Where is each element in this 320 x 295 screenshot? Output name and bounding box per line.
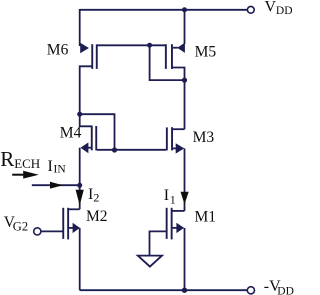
svg-text:2: 2 bbox=[93, 191, 99, 205]
svg-text:DD: DD bbox=[277, 285, 294, 295]
arrow I1 head bbox=[181, 192, 189, 205]
transistor M6 gate bar bbox=[96, 44, 98, 69]
wire top rail VDD bbox=[80, 9, 248, 11]
transistor M4 channel bar bbox=[91, 126, 93, 151]
svg-text:I: I bbox=[164, 187, 169, 204]
svg-text:M2: M2 bbox=[86, 208, 108, 225]
svg-text:1: 1 bbox=[170, 193, 176, 207]
transistor M2 channel bar bbox=[67, 208, 69, 240]
transistor M6 source arrow bbox=[80, 43, 89, 53]
wire gate line M6-M5 bbox=[97, 44, 166, 46]
wire IIN input line bbox=[32, 184, 80, 186]
svg-text:DD: DD bbox=[276, 5, 293, 17]
transistor M5 gate bar bbox=[165, 44, 167, 69]
wire M3 drain lead bbox=[172, 128, 185, 130]
transistor M3 gate bar bbox=[166, 127, 168, 150]
wire M2 gate lead bbox=[41, 230, 63, 232]
svg-text:M6: M6 bbox=[47, 42, 69, 59]
node dot M6 drain / node A bbox=[77, 112, 82, 117]
transistor M1 source arrow bbox=[176, 223, 184, 233]
wire M3 arrow stub bbox=[172, 147, 176, 149]
wire node A to gate line M4-M3 bbox=[80, 114, 115, 150]
wire M1 gate lead to ground bbox=[150, 231, 167, 255]
transistor M1 gate bar bbox=[166, 208, 168, 239]
wire gate line M4-M3 bbox=[97, 149, 166, 151]
transistor M2 source arrow bbox=[73, 223, 80, 233]
svg-text:IN: IN bbox=[54, 163, 67, 175]
wire M1 source down to rail bbox=[184, 228, 186, 290]
wire M2 source down to rail bbox=[79, 228, 81, 290]
wire M5 arrow stub bbox=[173, 47, 178, 49]
wire M1 arrow stub bbox=[172, 227, 177, 229]
svg-text:I: I bbox=[48, 158, 53, 175]
svg-text:M3: M3 bbox=[193, 129, 215, 146]
wire M5 drain lead bbox=[172, 68, 185, 81]
wire M2 arrow stub bbox=[69, 227, 74, 229]
transistor M5 source arrow bbox=[177, 43, 185, 53]
svg-text:M1: M1 bbox=[195, 209, 217, 226]
wire M1 drain lead bbox=[172, 210, 185, 212]
transistor M6 channel bar bbox=[91, 44, 93, 69]
arrow I2 head bbox=[76, 190, 84, 205]
arrow IIN head bbox=[50, 182, 63, 189]
transistor M5 channel bar bbox=[171, 44, 173, 69]
ground bbox=[138, 256, 162, 267]
transistor M3 source arrow bbox=[176, 143, 185, 153]
wire M4 arrow stub bbox=[88, 147, 93, 149]
wire M6 drain lead and left column bbox=[80, 66, 93, 114]
terminal circle -VDD bbox=[247, 287, 254, 294]
wire M4 source down to M2 drain bbox=[79, 148, 81, 210]
wire M5 source from rail bbox=[184, 9, 186, 44]
wire M2 drain lead bbox=[68, 208, 80, 210]
transistor M4 source arrow bbox=[81, 142, 89, 153]
wire M3 source down to M1 drain bbox=[184, 148, 186, 211]
transistor M1 channel bar bbox=[171, 208, 173, 240]
wire cross link down bbox=[150, 45, 185, 80]
wire bottom rail -VDD bbox=[80, 289, 248, 291]
transistor M2 gate bar bbox=[62, 208, 64, 239]
svg-text:M4: M4 bbox=[60, 125, 82, 142]
wire right column M5 to M3 bbox=[184, 80, 186, 129]
node dot gate line M6-M5 bbox=[147, 43, 152, 48]
arrow RECH bbox=[12, 174, 24, 176]
svg-text:R: R bbox=[0, 147, 14, 171]
terminal circle VDD bbox=[247, 6, 254, 13]
node dot IIN input bbox=[77, 183, 82, 188]
svg-text:ECH: ECH bbox=[14, 156, 40, 171]
node dot M5 drain bbox=[182, 78, 187, 83]
wire M6 source from rail bbox=[79, 9, 81, 46]
node dot gate line M4-M3 bbox=[112, 147, 117, 152]
node dot bottom rail bbox=[182, 288, 187, 293]
transistor M3 channel bar bbox=[171, 127, 173, 150]
wire node A to M4 drain bbox=[80, 114, 92, 126]
svg-text:V: V bbox=[265, 0, 277, 15]
transistor M4 gate bar bbox=[95, 126, 97, 150]
svg-text:G2: G2 bbox=[13, 220, 28, 234]
svg-text:M5: M5 bbox=[195, 43, 217, 60]
terminal circle VG2 bbox=[34, 228, 41, 235]
node dot top rail bbox=[182, 7, 187, 12]
